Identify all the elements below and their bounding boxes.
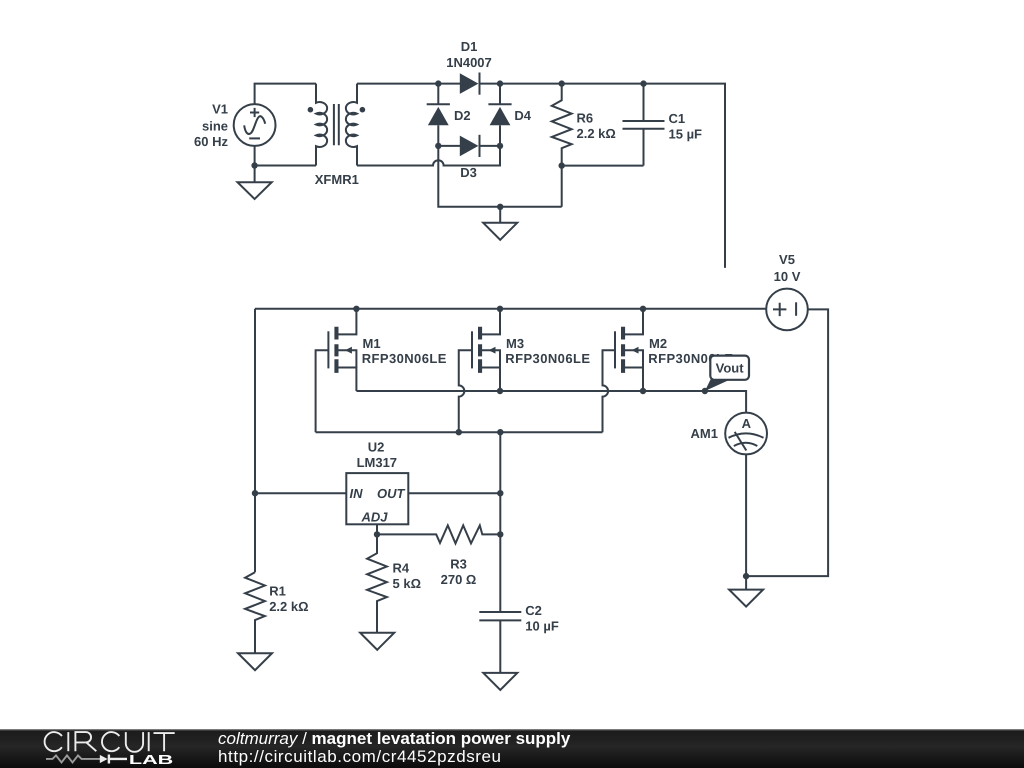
- node: D3-D4 junction: [497, 143, 503, 149]
- svg-text:D4: D4: [514, 108, 531, 123]
- svg-text:1N4007: 1N4007: [446, 55, 492, 70]
- wire transformer secondary bottom to bridge with hop: [357, 146, 500, 166]
- svg-text:ADJ: ADJ: [360, 510, 388, 525]
- node: bridge top right: [497, 80, 503, 86]
- wire OUT lead: [408, 492, 500, 494]
- svg-text:LM317: LM317: [357, 455, 397, 470]
- svg-text:LAB: LAB: [129, 752, 173, 767]
- node: top bus at M1: [353, 306, 359, 312]
- node: source bus at M3: [497, 388, 503, 394]
- node: OUT junction: [497, 490, 503, 496]
- voltage source V5: [766, 252, 808, 330]
- node: bridge top left: [435, 80, 441, 86]
- node: rail at C1: [640, 80, 646, 86]
- svg-text:C2: C2: [525, 603, 542, 618]
- ground under V1: [238, 166, 272, 200]
- ground under AM1: [729, 576, 763, 607]
- svg-text:R1: R1: [269, 584, 286, 599]
- resistor R3: [377, 525, 500, 587]
- wire V5 right lead down and left to AM1 ground junction: [746, 309, 828, 576]
- svg-text:D2: D2: [454, 108, 471, 123]
- svg-text:C1: C1: [669, 111, 686, 126]
- node: top bus at M3: [497, 306, 503, 312]
- footer bar: [0, 729, 1024, 768]
- svg-text:D1: D1: [461, 39, 478, 54]
- resistor R1: [245, 572, 308, 653]
- svg-text:60 Hz: 60 Hz: [194, 134, 228, 149]
- svg-text:2.2 kΩ: 2.2 kΩ: [577, 126, 616, 141]
- wire R6/C1 bottom junction down to ground rail: [561, 166, 563, 207]
- node: R6 bottom junction: [559, 162, 565, 168]
- node: D2-D3 junction: [435, 143, 441, 149]
- node: gate bus at OUT vertical: [497, 429, 503, 435]
- node: gate bus at M3 gate: [456, 429, 462, 435]
- svg-text:XFMR1: XFMR1: [315, 172, 359, 187]
- wire IN lead: [255, 492, 346, 494]
- svg-text:D3: D3: [460, 165, 477, 180]
- transistor M2: [603, 309, 734, 432]
- wire OUT vertical bus: [499, 432, 501, 612]
- ammeter AM1: [691, 413, 767, 455]
- svg-text:AM1: AM1: [691, 426, 718, 441]
- svg-text:V5: V5: [779, 252, 795, 267]
- wire middle top bus: [255, 308, 766, 310]
- svg-text:Vout: Vout: [716, 361, 745, 376]
- diode D4: [488, 84, 531, 146]
- diode D2: [427, 84, 471, 146]
- wire C1 bottom to R6 bottom junction: [562, 165, 644, 167]
- svg-text:M3: M3: [506, 336, 524, 351]
- svg-text:A: A: [742, 416, 752, 431]
- node: top bus at M2: [640, 306, 646, 312]
- svg-text:sine: sine: [202, 119, 228, 134]
- net label Vout: [705, 356, 749, 391]
- svg-text:270 Ω: 270 Ω: [441, 572, 477, 587]
- node: AM1 ground junction: [743, 573, 749, 579]
- ground under R4: [360, 633, 394, 650]
- svg-text:RFP30N06LE: RFP30N06LE: [505, 351, 590, 366]
- transformer XFMR1: [308, 84, 366, 187]
- CircuitLab logo: [0, 729, 200, 768]
- resistor R4: [367, 534, 421, 632]
- wire left vertical to R1: [254, 493, 256, 572]
- regulator U2 LM317: [346, 440, 408, 525]
- diode D1: [446, 39, 492, 95]
- svg-text:2.2 kΩ: 2.2 kΩ: [269, 599, 308, 614]
- svg-text:15 µF: 15 µF: [669, 127, 703, 142]
- wire gate bus: [316, 431, 603, 433]
- wire AM1 bottom: [745, 454, 747, 576]
- ground under bridge: [483, 207, 517, 240]
- svg-text:R3: R3: [450, 557, 467, 572]
- transistor M1: [316, 309, 447, 432]
- node: R3 right junction: [497, 531, 503, 537]
- wire ADJ lead: [376, 524, 378, 534]
- ground under C2: [483, 673, 517, 690]
- wire top rail from D1 cathode to C1 and corner down (dead end): [480, 84, 726, 268]
- transistor M3: [459, 309, 591, 432]
- voltage source V1: [194, 102, 275, 150]
- svg-text:10 V: 10 V: [774, 269, 801, 284]
- wire from V1 top to transformer primary: [255, 84, 316, 104]
- wire left vertical from top bus to IN junction: [254, 309, 256, 493]
- svg-text:U2: U2: [368, 440, 385, 455]
- svg-text:M2: M2: [649, 336, 667, 351]
- wire transformer secondary top to bridge: [357, 83, 460, 85]
- wire from V1 bottom to transformer primary bottom: [255, 146, 316, 166]
- capacitor C1: [623, 84, 703, 166]
- diode D3: [438, 135, 500, 180]
- svg-text:V1: V1: [212, 102, 228, 117]
- node: bridge ground junction: [497, 204, 503, 210]
- node: V1 ground junction: [251, 162, 257, 168]
- node: source bus at M2: [640, 388, 646, 394]
- svg-text:R4: R4: [393, 561, 410, 576]
- ground under R1: [238, 653, 272, 670]
- node: rail at R6: [559, 80, 565, 86]
- svg-text:RFP30N06LE: RFP30N06LE: [362, 351, 447, 366]
- wire source bus y=391 to AM1: [356, 391, 746, 413]
- node: IN junction: [252, 490, 258, 496]
- svg-text:R6: R6: [577, 111, 594, 126]
- svg-text:M1: M1: [363, 336, 381, 351]
- node: ADJ junction: [374, 531, 380, 537]
- resistor R6: [552, 84, 616, 166]
- node: Vout tap: [702, 388, 708, 394]
- svg-text:5 kΩ: 5 kΩ: [393, 576, 422, 591]
- svg-text:10 µF: 10 µF: [525, 619, 559, 634]
- svg-text:OUT: OUT: [377, 486, 406, 501]
- capacitor C2: [479, 603, 559, 673]
- svg-text:IN: IN: [350, 486, 364, 501]
- wire D2-D3 junction down to ground rail: [438, 146, 561, 207]
